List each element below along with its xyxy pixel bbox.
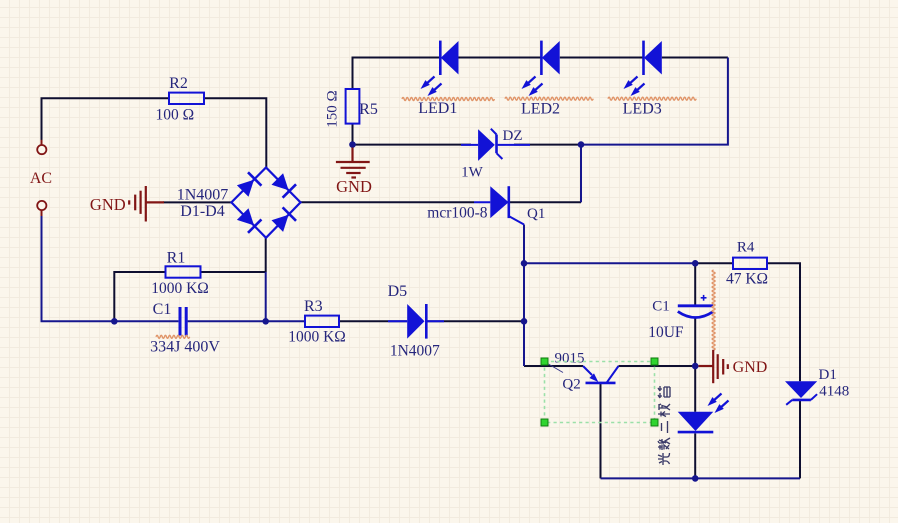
power port GND right (battery style) — [699, 350, 728, 383]
terminal AC bottom — [37, 201, 46, 210]
svg-text:LED3: LED3 — [623, 101, 662, 118]
transistor Q2 9015 PNP — [583, 366, 619, 383]
node R5/GND/DZ junction — [349, 141, 356, 148]
char min3 — [658, 438, 670, 450]
svg-text:AC: AC — [30, 170, 52, 187]
svg-text:1N4007: 1N4007 — [177, 187, 229, 204]
svg-text:100 Ω: 100 Ω — [155, 106, 194, 123]
resistor R3 — [305, 316, 339, 327]
bridge rectifier D1-D4 — [231, 168, 300, 238]
node Q2 collector junction — [692, 363, 699, 370]
svg-text:1N4007: 1N4007 — [390, 343, 440, 360]
squiggle LED1 — [402, 98, 494, 101]
svg-text:C1: C1 — [153, 301, 172, 318]
svg-text:1000 KΩ: 1000 KΩ — [151, 280, 209, 297]
leader line Q2 — [548, 364, 564, 373]
node rail photodiode junction — [692, 475, 699, 482]
LED2 — [541, 41, 559, 75]
wire C1 top vertical — [694, 263, 696, 305]
svg-text:10UF: 10UF — [648, 324, 684, 341]
wire R2 row right to bridge top — [204, 98, 266, 167]
diode bridge UL — [236, 172, 261, 197]
char guan3 — [658, 386, 670, 398]
node rail D5 junction — [521, 318, 528, 325]
svg-text:mcr100-8: mcr100-8 — [427, 205, 488, 222]
wire Q1 cathode to x581 — [509, 201, 581, 203]
svg-text:D1: D1 — [819, 367, 837, 383]
wire GND port to bridge left — [163, 201, 231, 203]
terminal AC top — [41, 140, 43, 145]
resistor R4 — [733, 258, 767, 269]
wire y144 DZ right — [514, 144, 581, 146]
ground earth under R5 — [336, 148, 370, 178]
wire R4 to right corner down — [767, 263, 800, 381]
wire LED3 to right corner — [662, 57, 728, 59]
wire x524 vertical — [523, 263, 525, 366]
svg-text:47 KΩ: 47 KΩ — [726, 271, 768, 288]
label photodiode (CJK drawn as strokes) — [658, 386, 670, 465]
svg-text:R4: R4 — [737, 240, 755, 256]
capacitor C1 (334J 400V) — [179, 307, 182, 336]
svg-text:C1: C1 — [652, 299, 670, 315]
svg-text:Q1: Q1 — [527, 206, 545, 222]
zener diode DZ — [461, 129, 530, 161]
capacitor C1 10UF polarized — [678, 295, 713, 318]
svg-text:1000 KΩ: 1000 KΩ — [288, 329, 346, 346]
wire C1 bottom vertical — [694, 317, 696, 367]
svg-text:334J 400V: 334J 400V — [150, 339, 220, 356]
svg-text:150 Ω: 150 Ω — [324, 90, 340, 127]
diode bridge LL — [236, 207, 261, 232]
LED3 — [644, 41, 662, 75]
zener diode D1 4148 — [785, 381, 817, 405]
svg-text:4148: 4148 — [819, 384, 849, 400]
wire bridge right to Q1 — [301, 201, 475, 203]
wire R2 row left — [42, 98, 170, 145]
wire x581 vertical — [580, 145, 582, 203]
wire rail cap to R3 — [188, 320, 305, 322]
squiggle LED2 — [505, 97, 593, 100]
svg-text:LED2: LED2 — [521, 101, 560, 118]
wire R5 top — [353, 58, 441, 90]
resistor R2 — [169, 93, 204, 104]
node DZ cathode junction — [578, 141, 585, 148]
wire R1 row right — [201, 271, 266, 273]
svg-text:R1: R1 — [167, 250, 186, 267]
diode D5 — [388, 304, 444, 339]
svg-text:LED1: LED1 — [418, 100, 457, 117]
power port GND left (battery style) — [129, 186, 164, 222]
svg-text:GND: GND — [336, 177, 372, 196]
wire LED2 to LED3 — [560, 57, 644, 59]
wire AC bottom to rail — [42, 210, 179, 321]
wire Q2 row right — [619, 365, 696, 367]
diode bridge UR — [271, 172, 296, 197]
wire R5 bottom — [352, 124, 354, 145]
wire D1 bottom — [799, 401, 801, 479]
svg-text:9015: 9015 — [555, 351, 585, 367]
resistor R5 — [346, 89, 360, 124]
char guang1 — [658, 453, 670, 465]
svg-text:R2: R2 — [169, 75, 188, 92]
node C1 top junction — [692, 260, 699, 267]
diode bridge LR — [271, 207, 296, 232]
wire bridge bottom vertical lower — [265, 272, 267, 321]
wire rail R3 to D5 — [339, 320, 407, 322]
svg-text:Q2: Q2 — [562, 377, 580, 393]
wire rail D5 to node — [427, 320, 525, 322]
wire bridge bottom vertical upper — [265, 238, 267, 272]
node rail bridge junction — [262, 318, 269, 325]
squiggle vertical GND net — [712, 270, 715, 350]
squiggle 334J — [156, 335, 190, 338]
wire LED1 to LED2 — [459, 57, 542, 59]
wire y263 node to R4 — [695, 262, 733, 264]
svg-text:R3: R3 — [304, 298, 323, 315]
wire R1 row left — [114, 272, 165, 321]
wire y263 row left — [524, 262, 695, 264]
wire photodiode top — [694, 366, 696, 412]
svg-text:GND: GND — [733, 359, 768, 376]
resistor R1 — [166, 266, 201, 277]
wire bottom rail — [601, 477, 801, 479]
selection box Q2 — [545, 362, 655, 423]
photodiode — [678, 412, 714, 432]
LED1 — [440, 41, 458, 75]
node rail R1 junction — [111, 318, 118, 325]
svg-text:D5: D5 — [388, 283, 408, 300]
wire Q1 gate vertical — [523, 225, 525, 264]
wire photodiode bottom — [694, 434, 696, 479]
node Q1 gate junction — [521, 260, 528, 267]
svg-text:DZ: DZ — [503, 128, 523, 144]
wire y144 DZ left — [353, 144, 472, 146]
wire right side vertical — [581, 58, 728, 145]
wire Q2 row left — [524, 365, 583, 367]
svg-text:R5: R5 — [359, 101, 378, 118]
svg-text:1W: 1W — [461, 165, 484, 181]
char ji2 — [658, 404, 670, 417]
svg-text:GND: GND — [90, 195, 126, 214]
char er4 — [662, 421, 668, 433]
squiggle LED3 — [608, 97, 696, 100]
svg-text:D1-D4: D1-D4 — [180, 203, 224, 220]
wire Q2 base to rail — [600, 383, 602, 478]
SCR Q1 mcr100-8 — [474, 186, 524, 224]
